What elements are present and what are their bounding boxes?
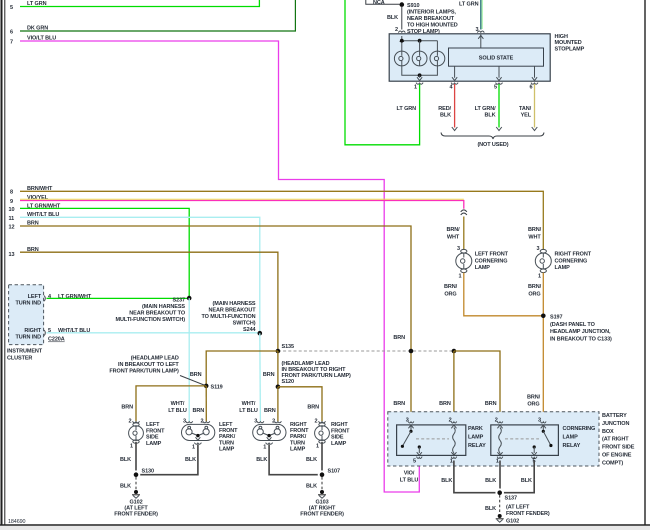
wire BLK left side lamp to S130 [120, 442, 136, 475]
svg-text:1: 1 [459, 274, 462, 280]
svg-text:(MAIN HARNESS: (MAIN HARNESS [142, 304, 185, 310]
cornering lamp relay [491, 421, 595, 464]
right front park/turn lamp [239, 401, 309, 453]
svg-text:BRN: BRN [393, 401, 405, 407]
left front cornering lamp [456, 246, 509, 280]
svg-text:SIDE: SIDE [146, 435, 159, 441]
svg-text:LAMP: LAMP [475, 265, 491, 271]
pin 1 bottom connector [451, 452, 456, 455]
svg-text:S197: S197 [550, 315, 562, 321]
svg-text:SIDE: SIDE [331, 435, 344, 441]
svg-text:9: 9 [10, 199, 13, 205]
svg-text:JUNCTION: JUNCTION [602, 421, 629, 427]
svg-text:STOPLAMP: STOPLAMP [555, 46, 585, 52]
svg-text:ORG: ORG [528, 292, 540, 298]
svg-text:FRONT FENDER): FRONT FENDER) [506, 511, 550, 517]
svg-text:NEAR BREAKOUT TO: NEAR BREAKOUT TO [129, 311, 186, 317]
svg-text:8: 8 [10, 190, 13, 196]
wire 13 BRN to S135 [9, 247, 278, 351]
pin 3 connector [408, 421, 414, 423]
svg-text:CLUSTER: CLUSTER [7, 355, 32, 361]
svg-text:C220A: C220A [48, 337, 65, 343]
svg-text:LT GRN: LT GRN [459, 2, 479, 8]
svg-text:PARK/: PARK/ [290, 434, 307, 440]
svg-text:S119: S119 [211, 385, 223, 391]
svg-text:BRN: BRN [263, 372, 275, 378]
svg-text:BLK: BLK [306, 457, 317, 463]
wire LT GRN/WHT cluster pin 4 to S237 [47, 294, 190, 300]
svg-text:12: 12 [9, 225, 15, 231]
svg-text:2: 2 [315, 418, 318, 424]
svg-text:OF ENGINE: OF ENGINE [602, 453, 632, 459]
solid state module [449, 35, 544, 81]
wire 6 DK GRN [10, 0, 295, 36]
wire 3 LT GRN into stoplamp (teal/green pair) [459, 0, 484, 33]
svg-text:BLK: BLK [387, 15, 398, 21]
relay 1 switch [410, 426, 412, 431]
svg-text:LAMP: LAMP [555, 265, 571, 271]
node S119 [109, 355, 222, 390]
svg-text:BLK: BLK [306, 484, 317, 490]
svg-text:TURN IND: TURN IND [16, 335, 42, 341]
svg-text:3: 3 [538, 418, 541, 424]
svg-text:BRN: BRN [121, 404, 133, 410]
node S237 [116, 296, 192, 323]
svg-text:COMPT): COMPT) [602, 460, 623, 466]
svg-text:3: 3 [537, 246, 540, 252]
svg-text:LEFT: LEFT [219, 422, 233, 428]
svg-text:LT BLU: LT BLU [400, 478, 419, 484]
node S120 [263, 361, 351, 389]
node S135 internal splice (dashed bus) [276, 344, 457, 353]
svg-text:TO MULTI-FUNCTION: TO MULTI-FUNCTION [201, 314, 255, 320]
wire 12 BRN to park lamp relay pin 3 [9, 221, 412, 422]
svg-text:IN BREAKOUT TO LEFT: IN BREAKOUT TO LEFT [118, 362, 179, 368]
svg-text:LAMP: LAMP [468, 435, 484, 441]
wire 8 BRN/WHT to right cornering lamp [10, 186, 543, 250]
svg-text:S244: S244 [243, 327, 256, 333]
svg-text:LT GRN/: LT GRN/ [475, 106, 496, 112]
svg-text:LAMP: LAMP [563, 435, 579, 441]
wire BRN/ORG right cornering lamp through S197 to cornering relay pin 3 [527, 273, 543, 422]
svg-text:LT GRN/WHT: LT GRN/WHT [58, 294, 92, 300]
svg-text:CORNERING: CORNERING [563, 426, 596, 432]
svg-text:BRN/: BRN/ [527, 395, 541, 401]
svg-text:BRN: BRN [485, 401, 497, 407]
wire BLK park relay pin 1 to S137 [441, 461, 499, 493]
svg-text:2: 2 [129, 418, 132, 424]
svg-text:HEADLAMP JUNCTION,: HEADLAMP JUNCTION, [550, 329, 611, 335]
wire WHT/LT BLU S244 down to right park/turn pin 3 [259, 333, 262, 421]
ground G102 at left front fender (relay grounds) [485, 495, 550, 525]
svg-text:BRN/: BRN/ [444, 284, 458, 290]
svg-text:RIGHT: RIGHT [290, 422, 307, 428]
svg-text:SWITCH): SWITCH) [233, 321, 256, 327]
svg-text:(NOT USED): (NOT USED) [477, 142, 508, 148]
svg-text:WHT/: WHT/ [171, 401, 185, 407]
not-used brace [441, 133, 544, 149]
pin 1 bottom connector [497, 452, 502, 455]
svg-text:PARK/: PARK/ [219, 434, 236, 440]
svg-text:LT GRN: LT GRN [397, 106, 417, 112]
bulb bottom bus [402, 66, 438, 76]
wire WHT/LT BLU cluster pin 5 to S244 [47, 328, 260, 343]
node S130 [132, 469, 154, 479]
svg-text:BLK: BLK [485, 506, 496, 512]
svg-text:3: 3 [406, 418, 409, 424]
svg-text:(AT LEFT: (AT LEFT [506, 505, 530, 511]
svg-text:RIGHT: RIGHT [24, 328, 41, 334]
stoplamp pin 6 wire TAN/YEL (not used) [519, 83, 538, 131]
pin 2 connector [451, 421, 457, 423]
svg-text:TURN IND: TURN IND [16, 301, 42, 307]
svg-text:PARK: PARK [468, 426, 483, 432]
instrument cluster box [7, 285, 44, 362]
relay 2 switch [542, 426, 544, 431]
svg-text:BLK: BLK [120, 484, 131, 490]
wire BLK cornering relay pin 1 to S137 [485, 461, 500, 493]
svg-text:S135: S135 [282, 344, 294, 350]
svg-text:LAMP: LAMP [219, 447, 235, 453]
node S910 junction [366, 0, 458, 35]
svg-text:BLK: BLK [185, 457, 196, 463]
wire 11 WHT/LT BLU to S244 [9, 212, 260, 333]
svg-text:BLK: BLK [440, 113, 451, 119]
high mounted stoplamp box [389, 34, 584, 81]
wire BLK right side lamp to S107 [306, 442, 322, 475]
svg-text:RED/: RED/ [438, 106, 451, 112]
node S137 [495, 488, 517, 501]
svg-text:MULTI-FUNCTION SWITCH): MULTI-FUNCTION SWITCH) [116, 317, 186, 323]
svg-text:BATTERY: BATTERY [602, 413, 627, 419]
svg-text:7: 7 [10, 40, 13, 46]
svg-text:NEAR BREAKOUT: NEAR BREAKOUT [407, 16, 455, 22]
svg-text:CORNERING: CORNERING [475, 258, 508, 264]
svg-text:LAMP: LAMP [331, 441, 347, 447]
svg-text:(AT RIGHT: (AT RIGHT [602, 437, 629, 443]
stoplamp pin 1 wire LT GRN return to top [345, 0, 423, 145]
svg-text:S107: S107 [328, 469, 340, 475]
svg-text:MOUNTED: MOUNTED [555, 40, 582, 46]
wire BRN S135 to park lamp relay pin 2 [453, 351, 455, 422]
svg-text:1: 1 [414, 85, 417, 91]
svg-text:BRN: BRN [190, 372, 202, 378]
svg-text:BRN/: BRN/ [528, 227, 542, 233]
svg-text:RELAY: RELAY [468, 443, 486, 449]
svg-text:RIGHT: RIGHT [331, 422, 348, 428]
wire BLK left park/turn lamp to S130 [136, 444, 198, 474]
svg-text:BRN/: BRN/ [528, 284, 542, 290]
svg-text:SOLID STATE: SOLID STATE [479, 56, 514, 62]
svg-text:BOX: BOX [602, 429, 614, 435]
wire BRN/WHT to left cornering lamp pin 3 [446, 217, 463, 251]
wire BRN S119 to left front side lamp pin 2 [136, 386, 206, 421]
svg-text:G102: G102 [506, 519, 519, 525]
svg-text:BRN: BRN [264, 408, 276, 414]
svg-text:ORG: ORG [444, 292, 456, 298]
svg-text:HIGH: HIGH [555, 34, 568, 40]
svg-text:1: 1 [263, 445, 266, 451]
svg-text:FRONT PARK/TURN LAMP): FRONT PARK/TURN LAMP) [109, 368, 179, 374]
wire BRN S119 to left park/turn lamp pin 2 [205, 386, 207, 421]
svg-text:1: 1 [496, 458, 499, 464]
node S107 [318, 469, 340, 479]
ground G103 right fender [300, 477, 344, 518]
svg-text:11: 11 [9, 216, 15, 222]
svg-text:LEFT FRONT: LEFT FRONT [475, 252, 509, 258]
svg-text:BLK: BLK [120, 457, 131, 463]
pin 5 bottom connector [532, 452, 537, 455]
svg-text:1: 1 [316, 444, 319, 450]
left front park/turn lamp [168, 401, 238, 453]
left front side lamp [121, 404, 165, 449]
svg-text:BLK: BLK [484, 113, 495, 119]
svg-text:FRONT: FRONT [290, 428, 309, 434]
svg-text:2: 2 [495, 418, 498, 424]
svg-text:LAMP: LAMP [146, 441, 162, 447]
stoplamp pin 5 wire LT GRN/BLK (not used) [475, 83, 503, 131]
svg-text:TURN: TURN [219, 440, 234, 446]
break symbol (wire continues) [461, 210, 467, 215]
park lamp relay [397, 421, 486, 464]
wire WHT/LT BLU S237 down to left park/turn pin 3 [188, 298, 190, 421]
svg-text:5: 5 [494, 85, 497, 91]
pin 2 connector [497, 421, 503, 423]
svg-text:(DASH PANEL TO: (DASH PANEL TO [550, 322, 596, 328]
VIO/LT BLU label at relay pin 5 [400, 471, 419, 484]
wire BRN S120 to right park/turn lamp pin 2 [277, 387, 279, 422]
svg-text:S120: S120 [282, 379, 294, 385]
wire BRN S120 to right front side lamp pin 2 [278, 387, 322, 422]
svg-text:RIGHT FRONT: RIGHT FRONT [555, 252, 592, 258]
svg-text:3: 3 [457, 246, 460, 252]
stoplamp internal wiring and bulbs [394, 36, 444, 81]
wire BRN S135 to cornering lamp relay pin 2 [454, 351, 500, 422]
right front cornering lamp [528, 227, 592, 280]
svg-text:ORG: ORG [527, 402, 539, 408]
svg-text:5: 5 [10, 5, 13, 11]
svg-text:BLK: BLK [521, 478, 532, 484]
svg-text:1: 1 [192, 445, 195, 451]
svg-text:FRONT: FRONT [331, 428, 350, 434]
svg-text:S237: S237 [173, 298, 185, 304]
stoplamp pin 4 wire RED/BLK (not used) [438, 83, 458, 131]
svg-text:WHT: WHT [447, 235, 460, 241]
svg-text:1: 1 [130, 444, 133, 450]
node S197 [541, 314, 612, 343]
right front side lamp [307, 404, 350, 449]
wire 9 VIO/YEL with yellow tracer [10, 195, 464, 209]
svg-text:2: 2 [449, 418, 452, 424]
svg-text:BRN/: BRN/ [446, 227, 460, 233]
svg-text:LT BLU: LT BLU [239, 408, 258, 414]
svg-text:LAMP: LAMP [290, 447, 306, 453]
wire BRN S135 left to S119 [206, 351, 278, 386]
svg-text:10: 10 [9, 207, 15, 213]
svg-text:184690: 184690 [8, 519, 25, 525]
svg-text:13: 13 [9, 252, 15, 258]
svg-text:IN BREAKOUT TO C133): IN BREAKOUT TO C133) [550, 336, 612, 342]
svg-text:TAN/: TAN/ [519, 106, 532, 112]
svg-text:BRN: BRN [439, 401, 451, 407]
wire BLK S910 to stoplamp pin 2 [387, 7, 405, 33]
svg-text:NCA: NCA [373, 0, 385, 6]
svg-text:BLK: BLK [441, 478, 452, 484]
svg-text:CORNERING: CORNERING [555, 258, 588, 264]
svg-text:WHT/: WHT/ [242, 401, 256, 407]
wire 10 LT GRN/WHT to S237 [9, 203, 190, 298]
pin 5 bottom connector [417, 452, 422, 455]
svg-text:1: 1 [538, 274, 541, 280]
wire BRN S135 down to S120 [277, 351, 279, 387]
svg-text:YEL: YEL [521, 113, 532, 119]
svg-text:S137: S137 [505, 496, 517, 502]
svg-text:BLK: BLK [485, 478, 496, 484]
svg-text:6: 6 [530, 85, 533, 91]
svg-text:2: 2 [395, 27, 398, 33]
svg-text:(MAIN HARNESS: (MAIN HARNESS [212, 301, 255, 307]
wire BLK cornering relay pin 5 to S137 [500, 461, 535, 493]
node S244 [201, 301, 262, 336]
svg-text:LEFT: LEFT [146, 422, 160, 428]
svg-text:BLK: BLK [256, 457, 267, 463]
svg-text:INSTRUMENT: INSTRUMENT [7, 349, 43, 355]
pin 3 connector [541, 421, 547, 423]
battery junction box [388, 412, 635, 467]
wire BLK right park/turn lamp to S107 [256, 444, 322, 474]
svg-text:BRN: BRN [393, 335, 405, 341]
svg-text:(INTERIOR LAMPS,: (INTERIOR LAMPS, [407, 10, 456, 16]
wire 7 VIO/LT BLU to park lamp relay pin 5 [10, 36, 419, 493]
wire 5 LT GRN (top) [10, 0, 259, 11]
stoplamp bulb 2 [412, 51, 427, 66]
svg-text:BRN: BRN [307, 404, 319, 410]
svg-text:6: 6 [10, 30, 13, 36]
svg-text:FRONT FENDER): FRONT FENDER) [114, 512, 158, 518]
relay 2 coil [499, 428, 502, 453]
svg-text:TO HIGH MOUNTED: TO HIGH MOUNTED [407, 23, 458, 29]
svg-text:WHT: WHT [528, 235, 541, 241]
svg-text:BRN: BRN [193, 408, 205, 414]
svg-text:1: 1 [450, 458, 453, 464]
stoplamp bulb 3 [430, 51, 445, 66]
stoplamp bulb 1 [394, 51, 409, 66]
svg-text:LEFT: LEFT [28, 294, 42, 300]
relay 1 coil [453, 428, 456, 453]
cluster pin 5 connector [44, 330, 45, 336]
svg-text:FRONT SIDE: FRONT SIDE [602, 445, 635, 451]
svg-text:TURN: TURN [290, 440, 305, 446]
svg-text:LT BLU: LT BLU [168, 408, 187, 414]
ground G102 left fender [114, 477, 158, 518]
svg-text:FRONT: FRONT [219, 428, 238, 434]
svg-text:(HEADLAMP LEAD: (HEADLAMP LEAD [131, 355, 179, 361]
cluster pin 4 connector [44, 296, 45, 302]
svg-text:5: 5 [413, 458, 416, 464]
svg-text:FRONT FENDER): FRONT FENDER) [300, 512, 344, 518]
svg-text:S910: S910 [407, 3, 419, 9]
wire BRN/ORG left cornering lamp to S197 [444, 273, 543, 316]
svg-text:FRONT: FRONT [146, 428, 165, 434]
svg-text:VIO/: VIO/ [404, 471, 415, 477]
svg-text:S130: S130 [142, 469, 154, 475]
svg-text:NEAR BREAKOUT: NEAR BREAKOUT [209, 308, 257, 314]
svg-text:RELAY: RELAY [563, 443, 581, 449]
